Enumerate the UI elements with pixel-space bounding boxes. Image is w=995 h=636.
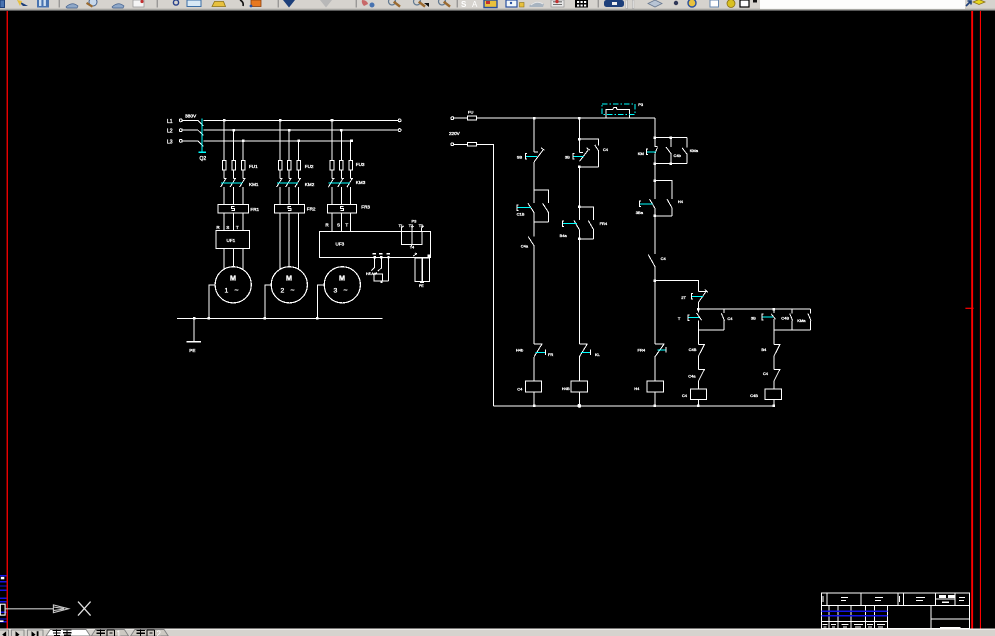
wire brake unit bottom <box>381 281 388 283</box>
wire rung3 <box>654 164 656 181</box>
toolbar icons <box>0 0 985 9</box>
wire rung3 top <box>654 118 656 138</box>
junction pads on ground bus <box>193 317 196 320</box>
wire rung5 <box>773 330 775 344</box>
svg-text:KMa: KMa <box>690 148 699 153</box>
svg-text:FU2: FU2 <box>305 164 314 169</box>
svg-text:C4: C4 <box>727 316 733 321</box>
svg-text:T3: T3 <box>419 224 423 228</box>
svg-text:2: 2 <box>281 288 285 295</box>
contact C4 NC <box>774 369 780 389</box>
terminal stubs above UF3 <box>402 226 424 232</box>
svg-text:B4a: B4a <box>560 233 568 238</box>
fuse FU2 <box>278 160 282 170</box>
svg-text:C4B: C4B <box>750 393 758 398</box>
control terminal top <box>451 117 454 120</box>
svg-text:T1: T1 <box>399 224 403 228</box>
linked contacts B4 block <box>574 207 594 239</box>
svg-text:S: S <box>337 223 340 228</box>
pin labels brake unit <box>373 253 390 255</box>
wire rung3 mid <box>654 216 656 254</box>
block C4B / KM <box>774 309 811 330</box>
junction <box>773 308 776 311</box>
stub below P3 module <box>411 244 413 246</box>
svg-text:Q2: Q2 <box>200 156 207 162</box>
wire rung2 top <box>578 118 580 139</box>
junction <box>697 308 700 311</box>
brake resistor R1 <box>415 258 422 281</box>
svg-text:S: S <box>226 225 229 230</box>
svg-text:3: 3 <box>334 288 338 295</box>
wire fuse to KM3 <box>332 170 351 179</box>
coil H4 <box>647 381 663 392</box>
svg-text:C4b: C4b <box>674 153 682 158</box>
junction <box>670 162 673 165</box>
wire L1 <box>182 119 398 121</box>
contact SB1 <box>534 148 544 162</box>
svg-text:FR4: FR4 <box>600 221 608 226</box>
coil H4B <box>571 381 587 392</box>
linked contacts H4 block <box>650 181 673 216</box>
wire KM1 to FR1 <box>224 187 243 205</box>
wire FR1 to UF1 <box>224 213 243 230</box>
heater symbol in P3 enclosure <box>606 107 629 118</box>
svg-text:FR4: FR4 <box>638 348 646 353</box>
svg-text:1: 1 <box>225 288 229 295</box>
tab bar <box>0 629 995 636</box>
junction <box>654 280 657 283</box>
fuse FU3 <box>330 160 334 170</box>
contact FR2b NC <box>579 344 587 382</box>
ground bus PE <box>177 317 383 319</box>
svg-text:S: S <box>461 0 467 9</box>
junction L1-1 <box>223 119 226 122</box>
svg-text:C4: C4 <box>517 387 523 392</box>
svg-text:C4B: C4B <box>689 347 697 352</box>
contactor KM1 poles <box>221 178 246 187</box>
contactor KM2 poles <box>277 178 302 187</box>
svg-text:M: M <box>339 274 345 283</box>
svg-text:H4: H4 <box>678 199 684 204</box>
svg-text:PE: PE <box>419 284 424 288</box>
red frame line left <box>7 11 8 629</box>
red tick mark <box>965 308 973 309</box>
svg-text:C4a: C4a <box>521 244 529 249</box>
wire L2 <box>182 129 398 131</box>
wire L3 <box>182 140 351 142</box>
contact C4 <box>648 254 655 267</box>
switch QS link <box>201 118 203 151</box>
svg-text:KMa: KMa <box>797 318 806 323</box>
coil C4B <box>765 389 781 399</box>
svg-text:380V: 380V <box>185 113 197 119</box>
inverter UF3 <box>320 232 431 258</box>
wire rung3 bottom <box>654 392 656 406</box>
junction <box>670 137 673 140</box>
terminal L1 right <box>398 119 401 122</box>
contact KM4a <box>369 267 375 273</box>
svg-text:A: A <box>472 0 478 9</box>
wire rung1 mid <box>533 222 535 237</box>
svg-text:P3: P3 <box>638 102 644 107</box>
svg-text:H4b: H4b <box>516 348 524 353</box>
svg-text:FU1: FU1 <box>249 164 258 169</box>
wire timer node row <box>698 308 810 310</box>
svg-text:SB: SB <box>517 155 523 160</box>
wire M2 to ground bus <box>265 285 271 319</box>
linked contacts Q2 block <box>528 190 549 222</box>
svg-text:H4B: H4B <box>562 386 570 391</box>
svg-text:UF1: UF1 <box>227 238 236 243</box>
wire M1 to ground bus <box>209 285 215 319</box>
svg-text:KM1: KM1 <box>249 182 259 187</box>
brake unit box <box>374 274 382 281</box>
coil C4 <box>525 381 541 392</box>
triple parallel contact block KM <box>655 138 687 164</box>
svg-text:C1B: C1B <box>517 211 525 216</box>
wire top rail <box>476 117 655 119</box>
contact KM4b <box>376 268 382 274</box>
wire brake unit drops <box>375 259 389 281</box>
fuse FU5 <box>454 143 468 145</box>
contact FR3b NC mirrored <box>655 344 665 382</box>
svg-text:C4: C4 <box>763 371 769 376</box>
junction rail r1 <box>533 117 536 120</box>
wire rung1 top <box>533 118 535 152</box>
svg-text:C4a: C4a <box>688 374 696 379</box>
svg-text:2T: 2T <box>681 295 686 300</box>
wire FR2 to M2 <box>280 213 298 269</box>
contact B4 NC <box>774 344 780 369</box>
contact 2T NC <box>698 290 707 310</box>
svg-text:~: ~ <box>235 287 239 294</box>
svg-text:PE: PE <box>189 348 195 353</box>
svg-text:FR1: FR1 <box>250 207 259 212</box>
wire left rail <box>476 144 493 406</box>
wire rung1 bottom <box>533 392 535 406</box>
junction L1-2 <box>279 119 282 122</box>
svg-text:L2: L2 <box>167 129 173 135</box>
svg-text:T: T <box>236 225 239 230</box>
wire KM3 to FR3 <box>332 187 351 205</box>
enclosure P3 dashed <box>602 104 635 115</box>
title block blue lines <box>821 611 887 616</box>
control terminal bottom <box>451 143 454 146</box>
tick above resistor <box>413 253 417 256</box>
contact FR1b NC <box>534 344 542 382</box>
coil C4 second <box>690 389 706 399</box>
wire branch3 drops <box>332 120 351 160</box>
junction L3-1 <box>242 140 245 143</box>
contact C4B NC <box>698 344 704 369</box>
wire bottom rail <box>494 405 774 407</box>
stub below resistors <box>421 281 423 282</box>
svg-text:C4B: C4B <box>781 315 789 320</box>
wire rung1 <box>533 162 535 190</box>
junction rail r2 <box>578 117 581 120</box>
svg-text:C4: C4 <box>682 393 688 398</box>
ground symbol PE <box>193 318 195 342</box>
wire FR3 to UF3 <box>332 213 351 231</box>
svg-text:T: T <box>345 223 348 228</box>
junction L2-1 <box>232 129 235 132</box>
svg-text:T4: T4 <box>410 246 414 250</box>
wire rung2 mid <box>578 167 580 207</box>
svg-text:FU3: FU3 <box>356 162 365 167</box>
junction pads brake unit <box>373 256 375 258</box>
svg-text:3Ba: 3Ba <box>636 210 644 215</box>
contact 3B <box>771 309 775 330</box>
wire rung2 down <box>578 239 580 344</box>
svg-text:~: ~ <box>291 287 295 294</box>
svg-text:1: 1 <box>117 630 122 636</box>
contact SB2 <box>579 139 589 161</box>
svg-text:T2: T2 <box>409 224 413 228</box>
junction <box>654 137 657 140</box>
wire fuse to KM2 <box>280 170 298 179</box>
thermal relay FR1 <box>218 205 248 214</box>
svg-text:KM2: KM2 <box>305 182 315 187</box>
svg-text:220V: 220V <box>449 131 461 136</box>
fuse FU4 <box>454 117 468 119</box>
junction <box>578 206 581 209</box>
svg-text:~: ~ <box>344 287 348 294</box>
svg-text:FR: FR <box>548 352 553 357</box>
junction <box>654 215 657 218</box>
left edge partial title block <box>0 576 7 622</box>
motor M3 <box>324 267 360 303</box>
svg-text:FU: FU <box>468 110 473 115</box>
thermal relay FR2 <box>275 205 305 214</box>
wire rung5 bottom <box>773 399 775 405</box>
svg-text:C4: C4 <box>661 256 667 261</box>
svg-text:KM: KM <box>638 151 644 156</box>
svg-text:FR2: FR2 <box>307 207 316 212</box>
svg-text:L1: L1 <box>167 119 173 125</box>
svg-text:B4: B4 <box>761 347 767 352</box>
svg-text:KM3: KM3 <box>356 180 366 185</box>
junction L2-2 <box>288 129 291 132</box>
brake resistor R2 <box>423 258 430 281</box>
block T / C4 <box>697 309 725 330</box>
wire rung4 bottom <box>697 399 699 405</box>
junction <box>654 180 657 183</box>
svg-text:P3: P3 <box>412 219 418 224</box>
svg-text:M: M <box>286 274 292 283</box>
junction pad resistor right <box>428 254 431 257</box>
red frame line right thick <box>971 11 973 629</box>
title block <box>821 593 969 629</box>
wire branch1 drops <box>224 120 243 160</box>
svg-text:3B: 3B <box>751 315 756 320</box>
wire rung2 bottom <box>578 392 580 406</box>
wire KM2 to FR2 <box>280 187 298 205</box>
wire rung4 <box>697 330 699 344</box>
junction <box>578 238 581 241</box>
junction <box>578 138 581 141</box>
svg-text:2: 2 <box>157 630 162 636</box>
wire M3 to ground bus <box>317 285 324 319</box>
module P3 box right <box>412 232 422 245</box>
parallel contact C4 branch <box>579 139 598 167</box>
contact C4a NC <box>698 369 704 389</box>
wire rung3 node <box>654 267 656 344</box>
wire UF1 to M1 <box>224 249 243 270</box>
svg-text:H4: H4 <box>634 386 640 391</box>
thermal relay FR3 <box>327 205 356 214</box>
junction L3-3 <box>350 140 353 143</box>
wire branch2 drops <box>280 120 298 160</box>
svg-text:C4: C4 <box>603 147 609 152</box>
junction <box>654 162 657 165</box>
svg-text:UF3: UF3 <box>336 242 345 247</box>
wire branch to timer <box>655 281 698 292</box>
svg-text:FR3: FR3 <box>361 205 370 210</box>
junction <box>578 166 581 169</box>
wire rung1 down <box>533 246 535 344</box>
junction L2-3 <box>340 129 343 132</box>
toolbar background <box>0 0 995 11</box>
svg-text:KL: KL <box>595 352 601 357</box>
junction L1-3 <box>331 119 334 122</box>
svg-text:M: M <box>230 274 236 283</box>
red frame line right thin <box>980 11 981 629</box>
module P3 box left <box>402 232 412 245</box>
junction L3-2 <box>297 140 300 143</box>
contact C4a <box>528 237 534 246</box>
inverter UF1 <box>216 230 250 248</box>
UCS icon <box>0 602 90 616</box>
motor M2 <box>271 267 307 303</box>
svg-text:3B: 3B <box>565 155 570 160</box>
svg-text:L3: L3 <box>167 140 173 146</box>
motor M1 <box>215 267 251 303</box>
switch QS blades <box>198 120 204 146</box>
contactor KM3 poles <box>328 178 353 187</box>
wire fuse to KM1 <box>224 170 243 179</box>
terminal L2 right <box>398 129 401 132</box>
fuse FU1 <box>222 160 226 170</box>
